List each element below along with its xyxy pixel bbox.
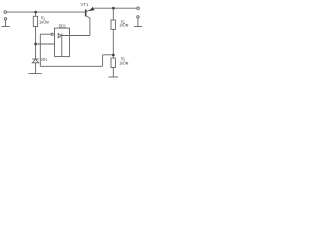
wire bottom return horizontal (103, 54, 114, 56)
junction node above R1 (34, 11, 37, 14)
inversion circle DD1 input (51, 33, 53, 35)
IC DD1 box (55, 28, 70, 56)
wire VT1 collector vertical (89, 18, 91, 36)
internal divider DD1 (61, 34, 63, 57)
diode VD1 triangle (32, 59, 38, 63)
junction node above R2 (112, 7, 115, 10)
input terminal lower left (4, 18, 6, 20)
bottom rail (40, 65, 102, 67)
output terminal upper right (137, 7, 140, 10)
ground stem lower left (5, 20, 7, 26)
svg-text:1кОм: 1кОм (119, 23, 128, 28)
resistor R2 (111, 20, 115, 29)
svg-text:VD1: VD1 (41, 57, 48, 62)
wire emitter rail (94, 7, 137, 9)
wire top rail to VT1 base (7, 11, 86, 13)
wire VD1 to ground (35, 63, 37, 74)
ground bar right (134, 26, 142, 28)
diode VD1 cathode bar (32, 58, 39, 60)
ground bar under VD1 (29, 73, 42, 75)
resistor R3 (111, 58, 115, 67)
ground bar under R3 (109, 76, 119, 78)
ground stem right (137, 18, 139, 26)
VT1 collector diagonal (86, 16, 90, 18)
wire R2 bottom to R3 (112, 29, 114, 58)
svg-text:VT1: VT1 (81, 2, 90, 7)
wire R1 to VD1 (35, 27, 37, 59)
junction node R2/R3 (112, 54, 115, 57)
wire vertical x40 to bottom rail (39, 34, 41, 66)
wire R3 bottom stem (112, 68, 114, 77)
transistor VT1 base bar (85, 10, 87, 17)
wire junction to R1 (35, 12, 37, 16)
node A junction (34, 43, 37, 46)
svg-text:DD1: DD1 (59, 23, 67, 28)
wire riser from bottom rail (102, 55, 104, 67)
svg-text:1кОм: 1кОм (119, 60, 128, 65)
resistor R1 (33, 16, 37, 26)
wire DD1 upper input (40, 33, 51, 35)
VT1 emitter diagonal (86, 10, 91, 12)
wire to R2 top (112, 8, 114, 20)
ground bar lower left (1, 26, 9, 28)
input terminal upper left (4, 11, 7, 14)
svg-text:1кОм: 1кОм (39, 20, 49, 25)
wire node A to DD1 (36, 43, 55, 45)
amplifier triangle inside DD1 (58, 34, 61, 38)
output terminal lower right (137, 16, 139, 18)
wire DD1 output to collector (62, 35, 90, 37)
VT1 emitter arrowhead (90, 7, 95, 11)
